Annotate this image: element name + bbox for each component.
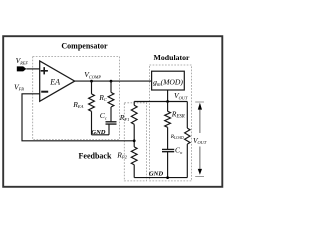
svg-text:Feedback: Feedback <box>79 151 112 160</box>
svg-text:GND: GND <box>91 129 105 136</box>
svg-text:EA: EA <box>49 77 60 86</box>
svg-text:GND: GND <box>149 171 164 178</box>
svg-text:Compensator: Compensator <box>61 41 108 50</box>
svg-text:Modulator: Modulator <box>154 53 190 62</box>
